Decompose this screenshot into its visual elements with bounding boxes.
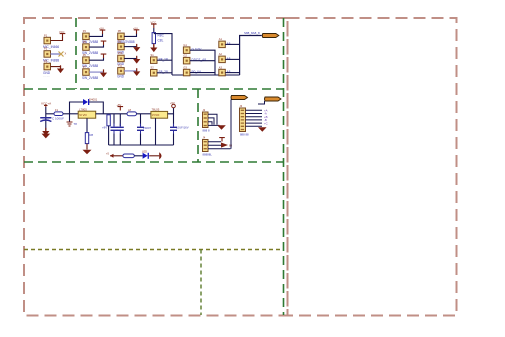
connector P10 [118, 55, 125, 62]
ground rail [109, 126, 174, 145]
power flag VCC [151, 24, 157, 29]
wires J3 [246, 110, 263, 126]
svg-text:A3: A3 [219, 65, 223, 69]
dashed border: green partition vertical x201 [200, 250, 202, 316]
ground arrow [133, 44, 140, 52]
svg-text:LED: LED [142, 150, 147, 154]
connector P2 [44, 51, 51, 58]
connector G2 [183, 57, 190, 64]
wire bus bottom across [172, 74, 240, 76]
svg-text:88888L: 88888L [203, 153, 213, 157]
wire A1 to bus [225, 43, 239, 45]
wire P6 [89, 58, 103, 61]
port oval ISP [265, 97, 282, 101]
wire P3 to ground [51, 66, 61, 69]
connector S1 [151, 57, 158, 64]
svg-text:P3: P3 [44, 59, 48, 63]
svg-text:888 8: 888 8 [203, 129, 210, 133]
svg-text:P2: P2 [44, 47, 48, 51]
wire P4 to VCC [89, 34, 102, 37]
connector S2 [151, 70, 158, 77]
wire right bus up to port [240, 36, 262, 76]
connector G3 [183, 69, 190, 76]
wire resistor top tap to bus [154, 34, 172, 75]
wire G3 to bus [190, 72, 215, 74]
svg-text:A8: A8 [227, 42, 231, 46]
connector J4 3pin [203, 140, 209, 152]
svg-text:P9: P9 [118, 39, 122, 43]
svg-text:10UF/16V: 10UF/16V [176, 126, 189, 130]
ground [86, 144, 88, 150]
transistor T1 [69, 114, 71, 122]
svg-text:+5V: +5V [99, 27, 104, 31]
power bubble [159, 152, 161, 159]
fuse F1 [54, 112, 63, 116]
wire port ISP [258, 101, 265, 104]
wire P5 [89, 45, 103, 48]
connector P1 [44, 37, 51, 44]
svg-text:C8L: C8L [158, 39, 164, 43]
ground [150, 44, 157, 52]
svg-text:+8V: +8V [102, 126, 107, 130]
power flag [101, 41, 107, 46]
ground arrow J3 [258, 127, 267, 132]
svg-text:A8: A8 [227, 57, 231, 61]
wire inductor to reg2 [137, 113, 151, 115]
svg-text:VCC: VCC [151, 21, 157, 25]
connector G1 [183, 47, 190, 54]
svg-text:P4007: P4007 [143, 126, 152, 130]
svg-text:VCC: VCC [59, 30, 65, 34]
ground arrow [133, 56, 140, 64]
svg-text:+5V: +5V [170, 101, 175, 105]
power flag +5V out [172, 104, 176, 108]
diode D1 [83, 99, 89, 105]
dashed border: green partition vertical x76 [75, 18, 77, 89]
svg-text:P0_0A: P0_0A [192, 70, 202, 74]
svg-text:S2: S2 [151, 66, 155, 70]
wire G2 to bus [190, 60, 215, 62]
connector P3 [44, 63, 51, 70]
wire A2 to bus [225, 58, 239, 60]
wire input node down [45, 107, 47, 131]
wire S1 to bus [157, 59, 172, 61]
power flag +5V [134, 29, 140, 34]
capacitor C1 electrolytic [40, 117, 51, 119]
svg-text:P10: P10 [118, 51, 123, 55]
wire P8 to VCC [124, 33, 136, 36]
svg-text:A2: A2 [219, 52, 223, 56]
svg-text:G3: G3 [183, 65, 187, 69]
svg-text:D4001: D4001 [89, 98, 98, 102]
wire regulator out [96, 113, 127, 115]
ground arrow J2 [217, 125, 226, 130]
svg-text:P11: P11 [118, 64, 123, 68]
svg-text:. . . . . . .: . . . . . . . [137, 82, 147, 86]
svg-text:P7: P7 [83, 65, 87, 69]
connector P6 [83, 57, 90, 64]
svg-text:G2: G2 [183, 53, 187, 57]
wire node to fuse [46, 113, 54, 115]
svg-text:888 88: 888 88 [240, 133, 249, 137]
wire P2 [51, 53, 61, 55]
wires J2 [208, 114, 220, 125]
power flag [101, 54, 107, 59]
port oval PRG [231, 96, 248, 100]
svg-text:A8: A8 [227, 70, 231, 74]
svg-text:SW_2V888: SW_2V888 [82, 76, 98, 80]
resistor R1 [152, 33, 155, 44]
svg-text:GND: GND [117, 75, 125, 79]
power flag VCC mid [118, 106, 124, 111]
wire vcc to resistor [153, 28, 155, 33]
svg-text:.. . ....: .. . .... [43, 75, 50, 78]
dashed border: green partition horizontal y162 [24, 161, 284, 163]
svg-text:+8V: +8V [117, 103, 122, 107]
dashed border: green partition horizontal y89 [24, 88, 284, 90]
svg-text:S8_28: S8_28 [159, 70, 168, 74]
wires J4 [208, 142, 231, 149]
connector J3 7pin [240, 108, 246, 132]
inductor L1 [127, 112, 137, 116]
svg-text:T8: T8 [74, 122, 78, 126]
svg-text:X: X [65, 52, 67, 56]
svg-text:DDDT_A8: DDDT_A8 [192, 58, 207, 62]
connector J2 4pin [203, 112, 209, 128]
svg-text:S1: S1 [151, 53, 155, 57]
regulator U2 LM7805 [78, 111, 96, 118]
ground [57, 65, 64, 73]
no-connect X mark [59, 52, 64, 57]
svg-text:P8: P8 [118, 29, 122, 33]
connector P11 [118, 68, 125, 75]
svg-text:C 100UF: C 100UF [52, 117, 64, 121]
svg-text:VI VO: VI VO [152, 113, 160, 117]
wire r4 to led [134, 155, 142, 157]
svg-text:L7805: L7805 [79, 107, 87, 111]
ground arrow [133, 68, 140, 76]
wire led to pwr dot [149, 155, 159, 157]
resistor R4 [123, 154, 134, 158]
dashed border: green partition vertical x283.5 [283, 18, 285, 315]
wire S2 to bus [157, 72, 172, 74]
ground [42, 128, 49, 136]
wire port PRG down [230, 100, 232, 149]
dashed border: olive partition horizontal y249.5 [24, 249, 284, 251]
connector P5 [83, 44, 90, 51]
regulator U3 78L05 [151, 111, 168, 118]
dashed border: green partition vertical x198 [197, 89, 199, 162]
svg-text:78L05: 78L05 [152, 108, 160, 112]
wire fuse to node [63, 113, 78, 115]
wire reg2 gnd [155, 118, 157, 145]
svg-text:A1: A1 [219, 37, 223, 41]
connector P9 [118, 43, 125, 50]
wire G1 to bus [190, 50, 215, 75]
port SPK out [262, 34, 279, 38]
svg-text:P1: P1 [44, 33, 48, 37]
power flag VCC [100, 30, 106, 35]
svg-text:R8: R8 [90, 133, 94, 137]
svg-text:P5: P5 [83, 40, 87, 44]
LED D2 [143, 153, 149, 159]
ground arrow [100, 69, 107, 77]
svg-text:+5V: +5V [133, 26, 138, 30]
capacitor C5 [173, 114, 175, 126]
svg-text:P6: P6 [83, 53, 87, 57]
capacitor C3 [119, 114, 121, 126]
wire bypass diode top [70, 102, 104, 114]
svg-text:G 0.0V: G 0.0V [192, 48, 203, 52]
arrow right J4 [221, 143, 228, 148]
wire P1 to VCC [51, 37, 63, 41]
svg-text:P4: P4 [83, 29, 87, 33]
dashed border: outer left red dashed box [24, 18, 288, 316]
svg-text:S88_8A8_8: S88_8A8_8 [244, 31, 260, 35]
svg-text:S8_18: S8_18 [159, 58, 168, 62]
wire reg2 out [168, 108, 174, 114]
connector P4 [83, 33, 90, 40]
wire P7 [89, 71, 103, 73]
capacitor C4 [140, 114, 142, 126]
wire regulator gnd pin [86, 118, 88, 132]
svg-text:G1: G1 [183, 43, 187, 47]
wire P10 to ground [124, 58, 137, 60]
connector P7 [83, 69, 90, 76]
svg-text:+C: +C [264, 121, 268, 125]
connector A3 [219, 69, 226, 76]
connector P8 [118, 33, 125, 40]
capacitor C2 [113, 114, 115, 126]
wire P11 to ground [124, 70, 137, 72]
dashed border: outer right red dashed box [288, 18, 457, 316]
resistor R3 vertical [107, 115, 110, 126]
power flag VCC [60, 33, 66, 38]
resistor R2 vertical [85, 133, 88, 144]
led indicator row: net tick [110, 155, 123, 157]
svg-text:VI VO: VI VO [79, 113, 87, 117]
power flag J4 [219, 137, 225, 142]
connector A1 [219, 41, 226, 48]
wire resistor bottom to ground [153, 44, 155, 48]
connector A2 [219, 56, 226, 63]
wire P9 to ground [124, 46, 137, 48]
wire A3 to bus [225, 72, 239, 74]
